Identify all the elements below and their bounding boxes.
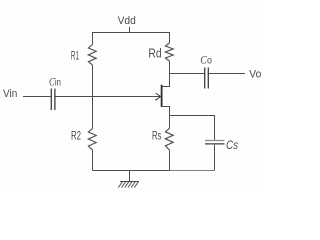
wire R1 top lead [92,33,94,45]
wire Co to Vo [209,73,245,75]
wire R1 bottom to gate node [92,65,94,97]
wire Rd top lead [169,33,171,44]
wire source node to Cs [170,116,215,140]
capacitor Co [205,68,209,89]
svg-text:Rs: Rs [152,129,161,143]
wire drain lead of Q1 [162,74,169,87]
capacitor Cin [51,89,55,111]
wire Rd bottom to drain node [169,61,171,74]
capacitor Cs [205,141,224,144]
svg-text:R1: R1 [71,49,79,63]
svg-text:Vin: Vin [3,88,17,100]
wire drain node to Co [170,73,205,75]
wire top Vdd rail [92,32,170,34]
resistor Rd [165,43,173,61]
svg-text:R2: R2 [71,128,81,142]
wire Vin input lead [23,96,51,98]
wire bottom ground rail [93,170,170,172]
resistor Rs [165,128,173,150]
power Vdd tap [129,27,131,33]
svg-text:Cs: Cs [226,138,238,152]
svg-text:Vo: Vo [249,69,261,81]
ground symbol [118,182,139,188]
wire Rs-Cs bottom link [170,170,215,172]
wire Cs bottom lead [214,145,216,171]
wire Rs bottom lead [169,150,171,171]
wire gate lead Cin to Q1 [55,96,160,98]
wire gate node to R2 top [92,97,94,129]
resistor R2 [88,129,96,151]
svg-text:Vdd: Vdd [118,15,136,27]
svg-text:Cin: Cin [49,77,61,89]
resistor R1 [88,45,96,66]
transistor Q1 JFET channel bar [161,85,163,107]
ground stub wire [129,171,131,182]
wire R2 bottom lead [92,150,94,171]
transistor Q1 gate arrow [155,93,160,100]
wire source lead of Q1 [162,107,169,129]
svg-text:Co: Co [200,55,212,67]
svg-text:Rd: Rd [148,47,161,61]
